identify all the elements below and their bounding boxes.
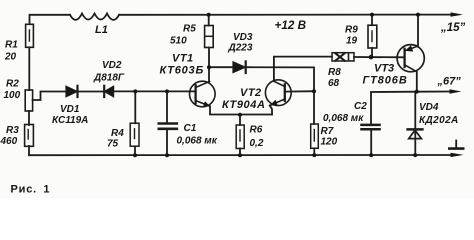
diode VD4 (vertical) [414, 92, 416, 155]
svg-text:R5: R5 [183, 24, 196, 35]
svg-text:120: 120 [321, 137, 338, 148]
svg-text:„67”: „67” [437, 76, 462, 88]
svg-text:Рис. 1: Рис. 1 [11, 184, 51, 196]
svg-text:„15”: „15” [440, 22, 466, 34]
wire R2 tap to diode row [33, 92, 66, 101]
wire output 15 arrow [451, 12, 464, 16]
wire R1-R2 [28, 47, 30, 90]
svg-text:R9: R9 [345, 25, 358, 36]
node bus R4 [133, 153, 137, 157]
node R5 top [207, 13, 211, 17]
svg-text:R4: R4 [111, 128, 124, 139]
svg-text:Д223: Д223 [228, 43, 253, 54]
resistor R1 [26, 24, 34, 47]
inductor L1 [70, 14, 119, 20]
node output 67 [415, 90, 419, 94]
ground [455, 141, 457, 149]
transistor VT2 (mirrored, base at right) [265, 80, 291, 106]
svg-text:19: 19 [346, 36, 358, 47]
svg-text:R3: R3 [6, 125, 19, 136]
wire R7 to bus [313, 148, 315, 155]
node bus VD4 [413, 153, 417, 157]
node VD3 anode [207, 65, 211, 69]
resistor R9 [368, 25, 377, 48]
svg-text:КТ904А: КТ904А [222, 99, 266, 111]
svg-text:VT1: VT1 [172, 53, 194, 65]
wire R5 to VT1 collector [208, 48, 210, 82]
svg-text:+12 В: +12 В [275, 19, 307, 32]
wire R6 to bus [239, 149, 241, 156]
transistor VT1 [190, 81, 216, 107]
wire VD3 anode [209, 66, 233, 68]
wire C1 top [166, 91, 168, 122]
wire C1 to bus [166, 130, 168, 155]
wire R3 to bottom bus [28, 146, 30, 155]
svg-text:510: 510 [170, 36, 187, 47]
node VT2 base / VD3 [312, 89, 316, 93]
resistor R4 [130, 123, 139, 146]
wire VT3 collector down [416, 71, 418, 91]
wire output 67 arrow [450, 89, 462, 93]
svg-text:0,068 мк: 0,068 мк [177, 136, 218, 147]
diode VD1 [66, 86, 78, 97]
svg-text:VD2: VD2 [102, 60, 122, 71]
node emitter R6 [238, 113, 242, 117]
svg-text:R8: R8 [328, 67, 341, 78]
wire VT3 emitter to top bus [417, 15, 419, 47]
svg-text:C1: C1 [184, 123, 197, 134]
svg-text:VT3: VT3 [374, 63, 394, 75]
node bus R6 [238, 153, 242, 157]
svg-text:0,068 мк: 0,068 мк [323, 113, 364, 124]
svg-text:L1: L1 [95, 24, 108, 36]
svg-text:КД202А: КД202А [419, 115, 459, 126]
transistor VT3 (emitter up, PNP) [397, 45, 424, 72]
wire R4 to bus [134, 147, 136, 156]
wire R9 top [371, 15, 373, 26]
wire VD3 cathode to R7 top [246, 67, 314, 124]
svg-text:Д818Г: Д818Г [93, 73, 125, 84]
wire R5 top [208, 15, 210, 26]
capacitor C2 [362, 124, 380, 127]
svg-text:20: 20 [4, 52, 17, 63]
bottom bus [29, 154, 452, 156]
svg-text:0,2: 0,2 [250, 138, 264, 149]
node bus R7 [312, 153, 316, 157]
node VD1 row R4 [133, 89, 137, 93]
wire VT2 collector up and right to R8 [274, 57, 332, 82]
wire diode row to VT1 base [114, 90, 196, 92]
wire VD1-VD2 [78, 91, 105, 93]
svg-text:75: 75 [107, 139, 119, 150]
wire VT2 base to VD3 drop [285, 90, 314, 92]
svg-text:460: 460 [0, 136, 18, 147]
svg-text:ГТ806В: ГТ806В [363, 75, 408, 87]
node bus C1 [165, 153, 169, 157]
wire VT2 emitter bend [270, 106, 272, 115]
resistor R5 [205, 26, 214, 48]
wire C2 to bus [370, 130, 372, 155]
capacitor C1 [159, 122, 177, 125]
svg-text:КТ603Б: КТ603Б [160, 65, 205, 77]
diode VD3 [233, 61, 246, 73]
svg-text:VT2: VT2 [240, 87, 262, 99]
wire top bus left segment [30, 15, 71, 24]
node VD1 row C1 [165, 89, 169, 93]
svg-text:R6: R6 [250, 125, 263, 136]
svg-text:68: 68 [328, 78, 340, 89]
resistor R2 [25, 90, 32, 111]
svg-text:R1: R1 [5, 40, 18, 51]
svg-text:VD3: VD3 [233, 32, 253, 43]
svg-text:C2: C2 [354, 101, 367, 112]
wire VT1 emitter to VT2 emitter [210, 106, 272, 114]
wire R6 drop [239, 115, 241, 126]
node R8-R9 [369, 55, 374, 60]
node bus C2 [369, 153, 373, 157]
wire C2 top / output 67 [371, 92, 417, 124]
wire bottom bus arrow [451, 153, 464, 157]
svg-text:100: 100 [4, 90, 21, 101]
wire R4 drop [134, 91, 136, 123]
resistor R7 [311, 124, 319, 148]
wire top bus right segment [119, 14, 452, 16]
wire R8 to R9 junction and VT3 base [354, 56, 405, 58]
svg-text:VD4: VD4 [419, 102, 439, 113]
resistor R8 (horizontal) [332, 53, 354, 61]
svg-text:КС119А: КС119А [52, 115, 88, 126]
resistor R3 [25, 125, 34, 147]
wire R2-R3 [28, 111, 30, 125]
resistor R6 [236, 125, 244, 149]
wire R9 bottom [371, 48, 373, 57]
svg-text:VD1: VD1 [60, 104, 80, 115]
svg-text:R7: R7 [321, 126, 334, 137]
svg-text:R2: R2 [6, 79, 19, 90]
node VT3 emitter top [416, 13, 420, 17]
node R9 top [370, 13, 374, 17]
diode VD2 [104, 86, 113, 97]
